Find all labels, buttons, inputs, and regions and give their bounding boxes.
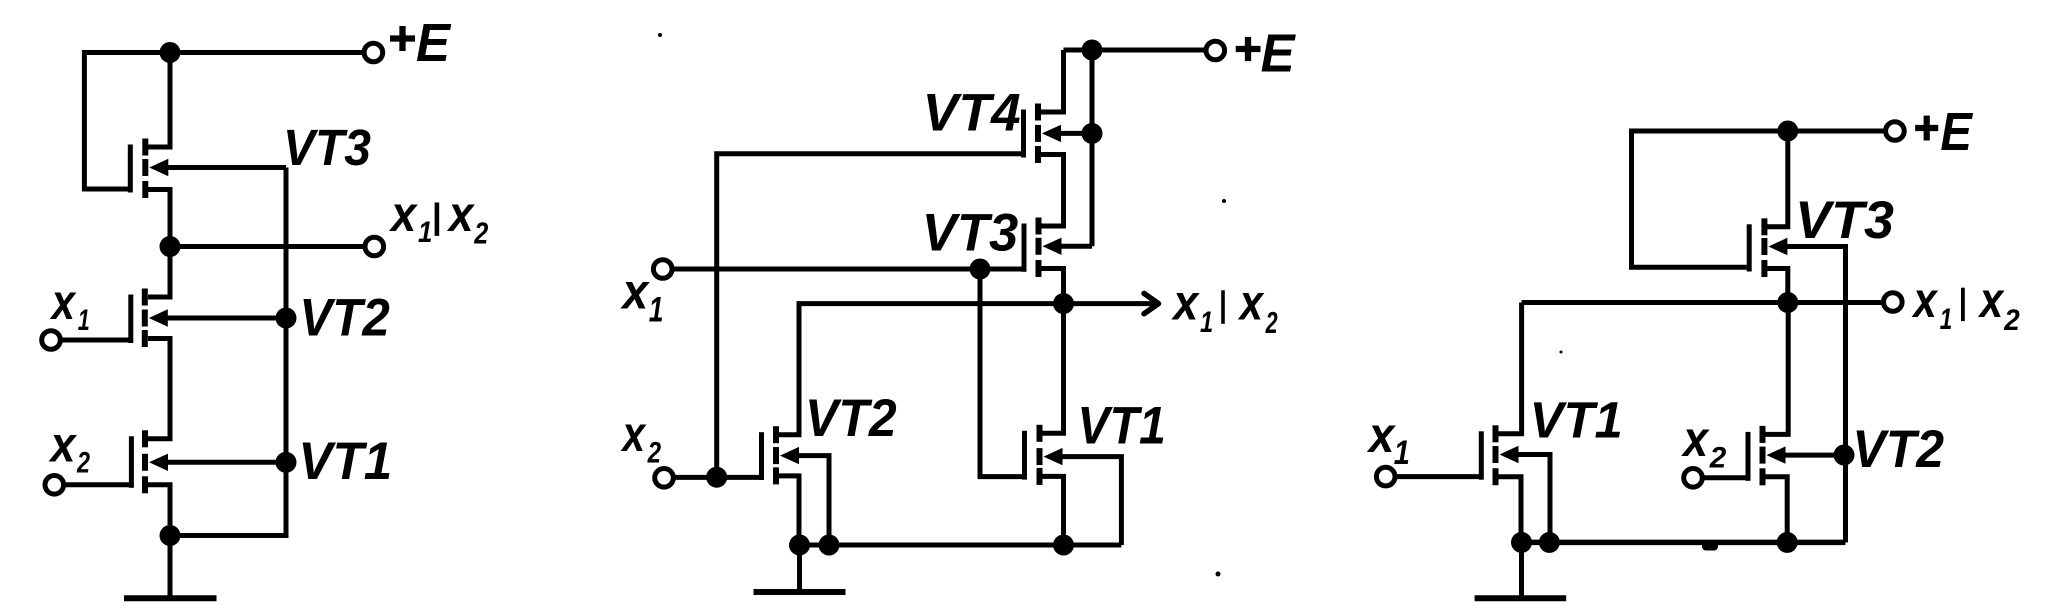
wire x1 input to VT1 gate (right) (1395, 474, 1479, 479)
svg-text:VT1: VT1 (298, 432, 392, 491)
svg-text:VT1: VT1 (1530, 392, 1623, 449)
wire x1 input to VT3 gate (middle) (672, 267, 1022, 272)
wire VT4 substrate to rail junction (middle) (1053, 50, 1092, 246)
junction VT2 substrate on bus (left) (276, 308, 297, 329)
wire VT3 substrate to bus (right) (1779, 247, 1846, 543)
svg-text:x: x (1366, 407, 1396, 463)
svg-text:x: x (1237, 275, 1265, 331)
label x1 (left input) (49, 274, 90, 337)
wire x2 input to VT1 gate (left) (63, 482, 129, 487)
svg-text:x: x (620, 406, 647, 462)
wire output line (right) (1522, 300, 1882, 305)
wire VT2 drain to output node (middle) (778, 304, 1064, 435)
wire VT1 source to ground node (right) (1499, 477, 1522, 543)
transistor VT1 (middle) (1022, 425, 1063, 485)
svg-text:x: x (620, 263, 651, 319)
wire output to terminal (left) (170, 244, 363, 249)
wire ground bus (middle) (799, 543, 1121, 548)
wire VT1 gate line (middle) (980, 269, 1023, 477)
label VT4 (middle) (923, 84, 1021, 143)
wire VT2 drain to output node (right) (1766, 303, 1789, 435)
wire VT2 substrate to ground bus (middle) (791, 456, 829, 545)
svg-text:2: 2 (76, 446, 90, 479)
label x2 (right input) (1680, 411, 1726, 474)
wire VT1 source to ground node (left) (148, 485, 170, 536)
node ground junction (right) (1511, 532, 1532, 553)
label VT1 (middle) (1077, 396, 1165, 455)
wire VT1 substrate to ground bus (middle) (1054, 457, 1121, 545)
label VT3 (left) (283, 119, 371, 176)
svg-text:x: x (48, 417, 78, 473)
wire gate feedback loop of VT3 (left) (84, 50, 128, 189)
junction VT2 source on bus (right) (1777, 532, 1798, 553)
svg-text:E: E (416, 13, 452, 73)
wire VT1 drain to output line (right) (1499, 303, 1522, 434)
junction on rail (middle) (1082, 40, 1103, 61)
wire VT4 gate to x2 (middle) (717, 154, 1022, 477)
junction VT1 source on bus (middle) (1053, 535, 1074, 556)
svg-text:x: x (1680, 411, 1710, 467)
label x1|x2 (left) (388, 186, 488, 251)
label VT3 (right) (1795, 191, 1894, 250)
svg-text:1: 1 (78, 304, 90, 337)
wire VT3 drain to rail (right) (1767, 131, 1788, 227)
junction on rail (left) (160, 42, 181, 63)
node x2 input terminal (left) (45, 476, 64, 495)
node +E terminal (middle) (1206, 41, 1225, 60)
svg-text:E: E (1940, 102, 1973, 162)
transistor VT1 (right) (1479, 425, 1519, 485)
svg-text:x: x (388, 186, 418, 242)
node output terminal x1|x2 (right) (1884, 293, 1903, 312)
junction on rail (right) (1777, 121, 1798, 142)
svg-text:x: x (1171, 275, 1201, 331)
transistor VT2 (right) (1746, 426, 1786, 485)
node output junction (right) (1777, 292, 1798, 313)
svg-text:x: x (446, 186, 475, 242)
svg-text:1: 1 (649, 290, 664, 330)
label x1 | x2 (right output) (1911, 272, 2020, 337)
label VT2 (middle) (805, 389, 897, 448)
wire VT2 drain to output node (left) (148, 247, 170, 298)
svg-text:2: 2 (473, 216, 488, 250)
ground (middle) (754, 545, 846, 592)
svg-text:VT2: VT2 (1852, 420, 1944, 479)
svg-text:VT2: VT2 (805, 389, 897, 448)
label VT2 (left) (299, 288, 389, 347)
svg-text:VT2: VT2 (299, 288, 389, 347)
wire VT2 substrate to bus vertical (right) (1777, 453, 1844, 458)
svg-text:2: 2 (647, 437, 661, 470)
svg-text:VT3: VT3 (283, 119, 371, 176)
junction x1 to VT1 gate (middle) (970, 259, 991, 280)
svg-text:x: x (1977, 272, 2005, 328)
junction VT1 substrate on bus (left) (276, 452, 297, 473)
label +E (right) (1915, 102, 1973, 162)
wire VT1 substrate to ground bus (right) (1510, 455, 1550, 543)
transistor VT1 (left) (129, 430, 168, 493)
wire gate feedback loop of VT3 (right) (1632, 129, 1747, 268)
transistor VT3 (right) (1747, 218, 1788, 277)
wire substrate bus (left) (170, 168, 286, 536)
wire VT2 source to ground bus (middle) (778, 476, 799, 545)
svg-text:E: E (1261, 23, 1297, 83)
node x1 input terminal (left) (42, 331, 61, 350)
svg-text:2: 2 (2003, 304, 2020, 337)
node x1 input terminal (middle) (653, 260, 672, 279)
wire output with arrow (middle) (1064, 293, 1159, 313)
node output junction (middle) (1053, 293, 1074, 314)
transistor VT3 (left) (128, 139, 169, 199)
node ground junction (left) (160, 525, 181, 546)
wire VT3 source to output node (left) (148, 190, 170, 247)
wire VT2 source to ground bus (right) (1766, 477, 1788, 543)
label x2 (middle input) (620, 406, 661, 469)
junction VT2 substrate (right) (1834, 445, 1855, 466)
wire VT4 drain to rail (middle) (1041, 50, 1064, 112)
wire top supply rail (right) (1632, 129, 1885, 134)
wire VT4 source to VT3 drain (middle) (1041, 155, 1064, 227)
svg-text:1: 1 (418, 216, 432, 249)
label x1 | x2 (middle output) (1171, 275, 1278, 340)
wire VT1 source to ground bus (middle) (1043, 476, 1064, 545)
transistor VT2 (left) (128, 289, 168, 348)
label VT1 (left) (298, 432, 392, 491)
svg-text:VT4: VT4 (923, 84, 1021, 143)
wire VT2 source to VT1 drain (left) (148, 339, 170, 439)
svg-text:x: x (49, 274, 77, 330)
svg-text:2: 2 (1709, 442, 1727, 475)
svg-text:1: 1 (1200, 306, 1213, 339)
node +E terminal (right) (1886, 122, 1905, 141)
transistor VT4 (middle) (1021, 104, 1061, 164)
wire ground bus (right) (1522, 540, 1846, 546)
node x2 input terminal (middle) (655, 469, 674, 488)
label VT2 (right) (1852, 420, 1944, 479)
node output terminal x1|x2 (left) (365, 237, 384, 256)
svg-text:2: 2 (1265, 305, 1278, 340)
wire x1 input to VT2 gate (left) (60, 338, 129, 343)
svg-text:VT3: VT3 (1795, 191, 1894, 250)
wire VT1 drain to output node (middle) (1043, 304, 1064, 434)
node output junction (left) (160, 236, 181, 257)
wire x2 input to VT2 gate (middle) (674, 475, 759, 480)
transistor VT2 (middle) (759, 426, 799, 484)
wire VT3 substrate (middle) (1053, 244, 1092, 249)
wire VT3 source to output node (middle) (1042, 269, 1064, 304)
wire x2 input to VT2 gate (right) (1703, 475, 1746, 480)
speck artifacts (658, 33, 1563, 577)
wire VT1 substrate to bus (left) (160, 460, 286, 465)
wire VT2 substrate to bus (left) (160, 316, 286, 321)
ground (right) (1475, 542, 1567, 598)
node +E terminal (left) (364, 43, 383, 62)
svg-text:VT3: VT3 (922, 203, 1018, 262)
ink smudge on bus (right) (1702, 541, 1718, 551)
label x2 (left input) (48, 417, 90, 480)
wire VT3 source to output node (right) (1767, 269, 1788, 303)
wire VT3 drain to rail (left) (148, 53, 170, 148)
label x1 (right input) (1366, 407, 1410, 472)
ground (left) (124, 536, 217, 599)
label +E (middle) (1236, 23, 1297, 83)
svg-text:1: 1 (1394, 434, 1410, 472)
label +E (left) (390, 13, 452, 73)
svg-text:VT1: VT1 (1077, 396, 1165, 455)
label x1 (middle input) (620, 263, 664, 329)
transistor VT3 (middle) (1022, 218, 1062, 278)
junction VT2 substrate on bus (middle) (819, 535, 840, 556)
junction VT4 substrate (middle) (1082, 123, 1103, 144)
wire top supply rail (middle) (1064, 48, 1206, 53)
node x1 input terminal (right) (1376, 467, 1395, 486)
junction x2 to VT4 gate (middle) (706, 467, 727, 488)
node x2 input terminal (right) (1684, 469, 1703, 488)
label VT3 (middle) (922, 203, 1018, 262)
wire top supply rail (left circuit) (84, 50, 362, 55)
svg-text:1: 1 (1940, 303, 1953, 336)
label VT1 (right) (1530, 392, 1623, 449)
wire VT3 substrate to bus (left) (160, 165, 286, 170)
junction VT1 substrate on bus (right) (1539, 532, 1560, 553)
svg-text:x: x (1911, 272, 1939, 328)
node ground junction (middle) (789, 535, 810, 556)
